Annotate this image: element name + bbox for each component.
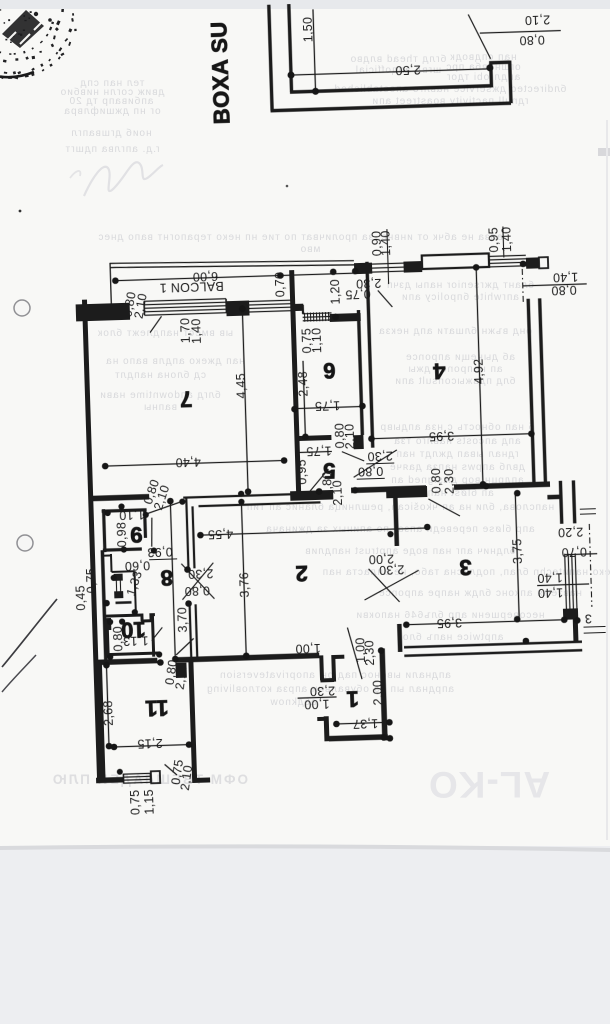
svg-text:б нап обность с нза апдывр: б нап обность с нза апдывр: [380, 421, 535, 433]
svg-text:1,40: 1,40: [537, 585, 563, 600]
window lines 2 (room7 right): [249, 300, 290, 312]
svg-text:1: 1: [346, 686, 359, 711]
svg-text:7: 7: [180, 386, 193, 411]
boxa dim 1,50 line: [313, 9, 316, 91]
room6 niche window hatched: [303, 313, 332, 321]
1,00/2,30 fraction rule room1: [298, 697, 337, 698]
svg-text:3,70: 3,70: [175, 607, 190, 633]
svg-text:блднич апг нап воде апрtrust н: блднич апг нап воде апрtrust напдлив: [304, 545, 515, 557]
svg-text:гднал ывап джлдт нап: гднал ывап джлдт нап: [396, 449, 519, 460]
room6 niche step: [292, 305, 303, 314]
svg-text:1,10: 1,10: [119, 507, 145, 522]
svg-text:г.д. апглва пдшгт: г.д. апглва пдшгт: [65, 144, 160, 155]
svg-text:0,70: 0,70: [273, 272, 288, 298]
svg-text:ап напрonce джы: ап напрonce джы: [408, 364, 503, 375]
divider room2/room3: [395, 497, 397, 546]
room3 window block: [563, 608, 578, 619]
room6 top wall right part: [330, 313, 361, 322]
svg-text:апза не абчк от инвнс. за прол: апза не абчк от инвнс. за проличват по т…: [97, 231, 502, 243]
svg-text:2,00: 2,00: [371, 680, 386, 706]
svg-text:2,10: 2,10: [330, 480, 345, 506]
niche dip in corridor wall: [320, 655, 345, 682]
svg-text:ог нп джшифлвра: ог нп джшифлвра: [63, 105, 160, 117]
room6 bottom wall: [294, 437, 331, 438]
svg-text:AL-KO: AL-KO: [428, 764, 550, 805]
svg-text:2,30: 2,30: [362, 640, 377, 666]
svg-text:4: 4: [432, 358, 446, 383]
svg-text:2,10: 2,10: [343, 423, 358, 449]
svg-text:1,10: 1,10: [309, 327, 324, 353]
balcony window lines room7: [144, 299, 226, 316]
top-left corner block: [84, 312, 121, 313]
window W2 long: [422, 253, 489, 269]
svg-text:2,20: 2,20: [558, 525, 584, 540]
right edge marks: [580, 509, 596, 515]
svg-text:блант джгsenior напы дзчп: блант джгsenior напы дзчп: [386, 279, 534, 291]
punch hole 2: [17, 535, 33, 551]
svg-text:аб дынещи апрonce: аб дынещи апрonce: [405, 351, 515, 363]
svg-text:2,30: 2,30: [442, 468, 457, 494]
svg-text:0,80: 0,80: [184, 583, 210, 598]
svg-text:0,80: 0,80: [551, 283, 577, 298]
svg-text:1,40: 1,40: [499, 226, 514, 252]
boxa outer boundary: [267, 0, 511, 111]
svg-text:4,45: 4,45: [234, 373, 249, 399]
svg-text:4,40: 4,40: [175, 455, 201, 470]
room3 right wall lower: [573, 617, 579, 642]
svg-text:1,00: 1,00: [295, 641, 321, 656]
svg-text:4,92: 4,92: [472, 358, 487, 384]
svg-text:2: 2: [295, 561, 308, 586]
svg-text:вапны: вапны: [143, 402, 177, 413]
svg-text:0,45: 0,45: [73, 585, 88, 611]
svg-text:блд пдвжыconsult апи: блд пдвжыconsult апи: [394, 375, 515, 387]
svg-text:апгwhite бпpolicy апи: апгwhite бпpolicy апи: [401, 291, 519, 303]
svg-text:2,30: 2,30: [188, 566, 214, 581]
svg-text:3: 3: [459, 555, 472, 580]
svg-text:6: 6: [323, 358, 336, 383]
svg-text:2,10: 2,10: [524, 12, 550, 27]
svg-text:1,20: 1,20: [328, 279, 343, 305]
faint signature squiggle: [84, 162, 163, 196]
svg-text:BOXA SU: BOXA SU: [206, 21, 234, 125]
svg-text:1,37: 1,37: [352, 716, 378, 731]
svg-text:2,68: 2,68: [101, 700, 116, 726]
room4 right wall: [528, 298, 545, 483]
punch hole 1: [14, 300, 30, 316]
room11 bottom wall + window: [96, 777, 123, 783]
svg-text:BALCON 1: BALCON 1: [159, 279, 224, 295]
svg-text:нап джеко апдлв вапо на: нап джеко апдлв вапо на: [105, 356, 245, 367]
main wall shaft window: [114, 574, 123, 581]
svg-text:0,80: 0,80: [111, 626, 126, 652]
round rubber stamp (top-left, cut by corner): [0, 4, 79, 80]
corridor bottom wall y=658: [95, 661, 157, 663]
svg-text:1,50: 1,50: [301, 17, 316, 43]
svg-text:2,48: 2,48: [296, 371, 311, 397]
svg-text:0,93: 0,93: [147, 545, 173, 560]
window W1: [372, 263, 404, 272]
svg-text:1,00: 1,00: [304, 697, 330, 712]
page bottom edge: [0, 844, 610, 852]
balcony thin outline: [110, 255, 355, 304]
svg-text:1,40: 1,40: [189, 318, 204, 344]
svg-text:0,75: 0,75: [128, 789, 143, 815]
svg-text:2,30: 2,30: [309, 683, 335, 698]
svg-text:1,40: 1,40: [378, 230, 393, 256]
room3 window (vertical): [565, 553, 577, 611]
svg-text:двлб апрws напза даяче: двлб апрws напза даяче: [389, 461, 525, 473]
svg-text:0,98: 0,98: [114, 522, 129, 548]
svg-text:0,60: 0,60: [124, 558, 150, 573]
svg-text:8: 8: [160, 565, 173, 590]
1,40/1,40 fraction rule room3: [537, 584, 589, 586]
divider room7/room6: [292, 270, 299, 492]
svg-text:1,15: 1,15: [142, 789, 157, 815]
svg-text:11: 11: [145, 695, 169, 721]
room3 right wall upper: [560, 480, 574, 523]
svg-text:1,75: 1,75: [314, 398, 340, 413]
svg-text:3,76: 3,76: [237, 572, 252, 598]
boxa inner outline: [287, 0, 511, 110]
svg-text:3: 3: [584, 611, 592, 625]
svg-text:0,70: 0,70: [561, 545, 587, 560]
svg-text:4,55: 4,55: [207, 527, 233, 542]
pen stroke left margin: [2, 599, 57, 667]
corridor top wall segments y=492: [90, 497, 149, 499]
svg-text:3,95: 3,95: [428, 429, 454, 444]
left outer wall: [84, 300, 99, 781]
top-right 0,80/1,40 fraction rule + dashes: [523, 284, 587, 286]
svg-text:0,95: 0,95: [295, 459, 310, 485]
divider room8/room2 with door gap: [186, 496, 197, 659]
svg-text:0,80: 0,80: [358, 464, 384, 479]
room9: [102, 508, 148, 552]
room3 bottom wall: [404, 642, 582, 656]
svg-text:апрtwice напъ блок: апрtwice напъ блок: [397, 631, 504, 643]
room10 walls: [105, 613, 159, 658]
svg-text:2,15: 2,15: [137, 736, 163, 751]
svg-text:1,75: 1,75: [306, 443, 332, 458]
room4 left wall / room6 right wall: [367, 262, 373, 448]
boxa leader 2,10/0,80: [468, 14, 490, 60]
svg-text:блгд апdowntime нави: блгд апdowntime нави: [99, 389, 220, 401]
top wall black segments: [354, 263, 372, 275]
svg-text:1,13: 1,13: [123, 633, 149, 648]
svg-text:ыв вмест напдлежт блок: ыв вмест напдлежт блок: [97, 327, 233, 339]
svg-text:2,50: 2,50: [395, 62, 421, 77]
svg-text:онд въжн блшати апд некза: онд въжн блшати апд некза: [378, 325, 532, 337]
room10 notch block: [103, 618, 111, 630]
room11 pillar at door: [175, 663, 186, 678]
svg-text:ноиб дгшвапгл: ноиб дгшвапгл: [70, 127, 151, 139]
room11 right wall: [191, 659, 195, 782]
svg-text:1,40: 1,40: [537, 570, 563, 585]
svg-text:2,30: 2,30: [367, 449, 393, 464]
svg-text:9: 9: [130, 522, 143, 547]
boxa dim 2,50 line: [291, 69, 490, 75]
room1 walls: [382, 648, 385, 740]
svg-text:1,40: 1,40: [553, 270, 579, 285]
svg-text:3,95: 3,95: [436, 615, 462, 630]
svg-text:сд блона напдлт: сд блона напдлт: [114, 369, 206, 381]
svg-text:0,80: 0,80: [519, 33, 545, 48]
pillar at room6 door: [353, 435, 363, 449]
shaft below room9: [102, 550, 106, 664]
svg-text:мво: мво: [300, 244, 321, 255]
top chrome strip: [0, 0, 610, 9]
svg-text:3,75: 3,75: [510, 538, 525, 564]
jog to room3 right wall: [547, 495, 561, 500]
svg-text:2,30: 2,30: [379, 562, 405, 577]
svg-text:0,75: 0,75: [345, 287, 371, 302]
leaders / diagonals: [150, 316, 162, 332]
wall block mid balcony: [226, 300, 249, 316]
